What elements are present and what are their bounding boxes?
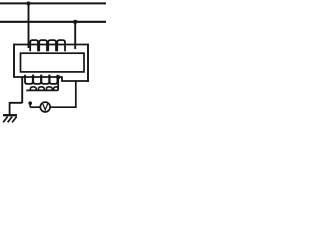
right wire from primary end down	[87, 44, 89, 82]
wire from step down to voltmeter	[75, 81, 77, 108]
earth bar	[3, 114, 17, 116]
secondary turn 2	[33, 75, 41, 84]
primary turn 2	[39, 40, 47, 51]
earth hatch 3	[12, 117, 16, 123]
jog wire down	[29, 103, 31, 107]
lower layer turn 3	[46, 87, 52, 90]
secondary turn 1	[25, 75, 33, 84]
voltmeter left lead	[30, 106, 40, 108]
primary turn 1	[30, 40, 38, 51]
secondary winding baseline	[14, 76, 63, 78]
supply line 2	[0, 21, 106, 23]
secondary right step wire	[62, 77, 89, 81]
lower layer turn 2	[38, 87, 44, 90]
earth hatch 2	[8, 117, 12, 123]
wire from line 2 down to primary right lead	[74, 22, 76, 49]
node dot on line 2	[73, 20, 77, 24]
earth hatch 1	[3, 117, 7, 123]
wire from line 1 down to primary	[28, 4, 30, 49]
secondary turn 3	[41, 75, 49, 84]
transformer core box	[21, 53, 85, 72]
primary turn 3	[48, 40, 56, 51]
lower layer turn 4	[54, 87, 59, 90]
wire from tap down to lower layer	[57, 77, 59, 90]
node dot secondary tap	[56, 75, 60, 79]
jog node on voltmeter wire	[28, 101, 32, 105]
lower layer turn 1	[30, 87, 36, 90]
secondary lower layer wire	[26, 89, 58, 91]
supply line 1	[0, 2, 106, 4]
primary winding baseline	[14, 44, 88, 46]
primary turn 4	[57, 40, 65, 51]
secondary turn 4	[50, 75, 58, 84]
voltmeter	[40, 102, 50, 112]
node dot on line 1	[26, 1, 30, 5]
left bracket wire joining primary and secondary	[13, 44, 15, 78]
voltmeter right lead	[50, 106, 77, 108]
wire to earth	[10, 103, 23, 115]
ground lead from secondary left end	[21, 77, 23, 103]
